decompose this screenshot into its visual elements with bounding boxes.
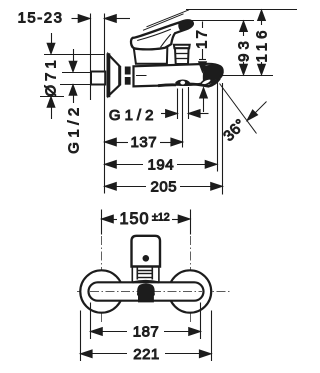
svg-text:150: 150 (119, 210, 149, 228)
221 extension lines (80, 311, 82, 362)
face reference line (x=104.5 vertical, shared by 15-23/137/194/205) (104, 14, 106, 194)
lever handle (side view) (131, 20, 193, 49)
dim 205 (105, 182, 117, 190)
mixer body (side view) (134, 64, 223, 87)
dim Ø71 vertical text (43, 56, 60, 96)
lever neck inner line (161, 34, 171, 47)
svg-text:Ø71: Ø71 (43, 56, 60, 96)
ext line x=222.5 (205 dim) (222, 83, 224, 195)
ext line x=217 (194 dim) (217, 75, 219, 172)
body underside heavy left (158, 83, 176, 87)
svg-text:137: 137 (131, 134, 158, 151)
svg-text:93: 93 (236, 37, 253, 62)
svg-text:±12: ±12 (152, 211, 170, 223)
36 degree plane line (220, 84, 257, 134)
dim line 15-23 with arrows (72, 18, 79, 20)
137 extension line (outlet centre) (182, 89, 184, 148)
dim 221 (80, 350, 92, 358)
body inner tick (136, 75, 147, 77)
svg-text:194: 194 (148, 157, 175, 174)
dim 116 vertical (258, 10, 266, 21)
svg-text:G1/2: G1/2 (109, 107, 158, 124)
reference line y=20.5 (93 dim) (184, 20, 255, 22)
svg-text:36°: 36° (220, 116, 249, 145)
outlet lens (black) (175, 80, 190, 87)
150 dim arrows (inside, outward) (102, 215, 114, 223)
lever rear black wedge (130, 40, 134, 49)
bottom reference line y=75 (spout outlet) (222, 75, 273, 77)
lever black tip (178, 20, 193, 31)
dim 17 vertical text (194, 28, 211, 49)
left escutcheon circle (80, 270, 122, 312)
spout (front view, black) (137, 284, 155, 303)
17 dim shaft/tick/arrows (202, 22, 204, 29)
capsule centreline (90, 291, 202, 293)
36 degree leader arrow (255, 102, 267, 114)
body underside heavy right (190, 79, 220, 87)
svg-text:116: 116 (254, 27, 271, 63)
36 degree text (220, 116, 249, 145)
dim 187 (91, 328, 103, 336)
G1/2 outlet dim arrows (161, 113, 166, 115)
top reference line y=9.5 (116 dim) (186, 9, 297, 11)
dim G1/2 (left) vertical text (66, 103, 83, 154)
Ø71 dimension arrows (51, 33, 53, 44)
svg-text:221: 221 (133, 346, 160, 363)
phantom raised-lever lines (147, 10, 190, 27)
right escutcheon circle (169, 270, 211, 312)
svg-text:205: 205 (151, 179, 178, 196)
spout end black wedge (203, 65, 222, 83)
Ø71 top ref line y=54 (44, 54, 104, 56)
body capsule (front view) (89, 282, 204, 300)
diverter knob (side view) (174, 45, 190, 48)
G1/2 left dim arrows (73, 49, 75, 62)
capsule top bump (133, 281, 160, 283)
connection nut (black) (125, 67, 131, 75)
dim 194 (105, 160, 117, 168)
svg-text:17: 17 (194, 28, 211, 49)
centrelines (dash-dot) (77, 236, 230, 322)
wall reference line (90, 14, 92, 101)
G1/2 outlet extension lines (177, 89, 179, 120)
dim 93 vertical (240, 21, 248, 32)
escutcheon cone (side view) (108, 55, 119, 96)
svg-text:G1/2: G1/2 (66, 103, 83, 154)
handle (front view) (132, 236, 161, 267)
handle dome (cartridge cover, side) (134, 45, 168, 63)
Ø71 bottom ref line y=96.5 (40, 96, 64, 98)
spout mouth (white ellipse) (200, 77, 212, 86)
svg-text:187: 187 (133, 324, 160, 341)
G1/2 left dim ref lines (62, 72, 91, 74)
escutcheon square connector (side view) (91, 72, 105, 85)
lever inner top line (137, 29, 171, 40)
handle screw dot (143, 255, 150, 262)
cartridge collar (front) (131, 267, 133, 282)
dim 137 (105, 138, 117, 146)
187 extension lines (90, 303, 92, 340)
svg-text:15-23: 15-23 (18, 10, 64, 27)
outlet white hole (180, 81, 185, 85)
150 extension lines (101, 210, 103, 235)
